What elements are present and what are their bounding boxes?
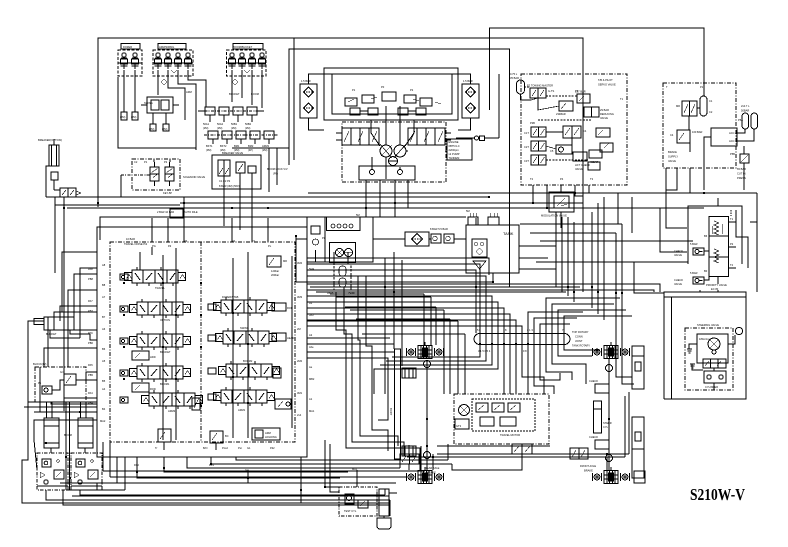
wire pump v-links [371,120,380,146]
svg-text:ENGINE: ENGINE [449,140,459,144]
hydraulic tank box [466,225,519,273]
svg-text:2M: 2M [297,327,301,331]
svg-text:STEER: STEER [603,421,612,425]
wire top outer gamma line [490,28,705,110]
svg-text:PL: PL [322,236,326,240]
pump lower manifold [359,166,415,180]
swing reduce valve [141,97,179,113]
servo extra valve row [588,128,613,170]
accumulator B [751,113,758,129]
tank breather 2 [466,209,478,225]
wire mcv right mesh L6 [307,308,504,333]
svg-text:50B2: 50B2 [245,122,252,126]
svg-text:P1: P1 [144,160,148,164]
svg-text:P5B: P5B [730,152,735,156]
svg-text:(2M): (2M) [162,127,167,131]
valve ROD right [272,303,293,311]
engine coupling [475,136,479,140]
svg-text:35 BAR: 35 BAR [510,76,519,80]
pilot valve DOZER label [121,44,140,50]
servo solenoid C3T [524,155,546,165]
svg-text:VALVE: VALVE [674,253,682,257]
bucket cylinder [34,317,74,336]
breaker foot valve [51,172,58,180]
svg-text:1.5 BAR: 1.5 BAR [301,79,311,83]
svg-text:(2M): (2M) [120,115,125,119]
svg-text:P3: P3 [184,239,188,243]
svg-text:CONN: CONN [575,335,583,339]
svg-text:BM2: BM2 [248,144,254,148]
svg-text:50A2: 50A2 [217,122,224,126]
svg-text:PRESS: PRESS [737,176,746,180]
svg-text:P1: P1 [252,239,256,243]
svg-text:CHECK: CHECK [589,379,598,383]
svg-text:3Ae: 3Ae [309,345,314,349]
boom lock block left [37,453,68,490]
svg-text:Pd: Pd [168,244,172,248]
svg-text:SOLENOID VALVE: SOLENOID VALVE [183,175,205,179]
remote control valve [530,88,546,98]
oil cooler fan box [330,243,356,263]
svg-text:SWING: SWING [144,101,153,105]
wire mid mesh horizontals [330,293,424,295]
svg-text:B8: B8 [102,283,106,287]
steering inner top line [671,297,673,399]
svg-text:2x0.7 L: 2x0.7 L [741,104,750,108]
svg-text:MR: MR [283,259,287,263]
svg-text:A6: A6 [102,327,106,331]
svg-text:KEY-5P: KEY-5P [163,191,172,195]
wire right extra mesh [307,270,476,333]
svg-text:AUTO IDLE: AUTO IDLE [184,210,198,214]
front propeller shaft [608,358,610,470]
wire left horizontals [28,401,97,403]
check valve upper [674,248,704,257]
svg-text:TANK: TANK [503,231,514,236]
svg-text:P2B: P2B [530,121,535,125]
svg-text:VALVE: VALVE [668,159,676,163]
svg-text:3M3: 3M3 [297,295,303,299]
valve regen right [275,399,291,409]
spool BUCKET [130,331,191,350]
text ENGINE spec box [447,139,472,160]
breaker valve box [212,155,261,189]
svg-text:VALVE: VALVE [674,282,682,286]
svg-text:(2M): (2M) [217,126,222,130]
svg-text:B5: B5 [102,379,106,383]
svg-text:10 BAR: 10 BAR [126,237,135,241]
spool OPTION [130,299,191,318]
svg-text:8 BAR 5.5 BAR: 8 BAR 5.5 BAR [430,227,448,231]
wire tank side verticals [555,212,557,287]
wire right riser to steering [756,193,758,292]
svg-text:TRAVEL MOTOR: TRAVEL MOTOR [500,433,520,437]
front check upper [589,379,609,393]
wire servo drop lines [528,312,583,333]
MCV inner dashed box [110,242,295,442]
svg-text:Ae: Ae [309,365,313,369]
svg-text:ARM: ARM [186,90,192,94]
svg-text:ARM2: ARM2 [168,409,176,413]
svg-text:DOZER: DOZER [123,45,132,49]
svg-text:P2: P2 [164,160,168,164]
steering tank symbols [687,349,692,353]
svg-text:ACC A: ACC A [729,131,737,135]
wire mcv right mesh L8 [307,320,516,333]
svg-text:C1 C2 P2: C1 C2 P2 [219,179,231,183]
svg-text:TEST CYL: TEST CYL [344,509,357,513]
svg-text:0.75 L: 0.75 L [510,72,518,76]
svg-text:P4: P4 [560,177,564,181]
wire mid verticals below mcv [300,457,302,503]
svg-text:PL: PL [268,244,272,248]
svg-text:(4P): (4P) [248,148,253,152]
svg-text:PB5: PB5 [88,373,93,377]
wire lock block outlets [46,490,390,500]
svg-text:PB8: PB8 [88,277,93,281]
MCV bottom relief left [158,429,171,450]
main pump 2 [394,145,406,157]
steering cylinder block [704,371,726,389]
svg-text:8 BAR (3M) (5P2): 8 BAR (3M) (5P2) [219,184,240,188]
steering wheel circle [735,327,742,334]
brake reducing valve [670,130,690,143]
svg-text:200bar: 200bar [271,273,279,277]
block12 relief valve [60,370,76,385]
svg-text:CYLINDER: CYLINDER [705,385,718,389]
wire tj risers right [546,298,620,333]
spool DOZER/STAB [214,297,275,316]
cooler left sub-box [307,217,325,262]
svg-text:P2: P2 [410,88,414,92]
steering outer box [664,292,746,399]
wire pump outlet lines [365,180,367,193]
MCV center divider [200,242,202,442]
rear axle housing [389,349,401,459]
svg-text:120bar: 120bar [271,269,279,273]
svg-text:BKT1: BKT1 [206,144,213,148]
svg-text:BKT2: BKT2 [220,144,227,148]
svg-text:MR: MR [676,104,680,108]
front susp cylinder lower [632,417,645,483]
svg-text:C2T: C2T [524,145,529,149]
reducing valve 234bar [556,101,573,116]
boom cylinder left [44,402,59,448]
svg-text:P2 TOWING MASTER: P2 TOWING MASTER [527,84,553,88]
svg-text:CHECK: CHECK [674,278,683,282]
wire tank outlet [492,273,494,282]
block12 check valve [38,381,52,394]
servo spool valve [563,126,587,138]
svg-text:OPTION: OPTION [160,318,170,322]
steer cylinder [594,401,612,433]
pilot c2 diamond [161,79,167,85]
svg-text:REAR AXLE: REAR AXLE [425,466,440,470]
boom cylinder right [78,402,93,448]
tank breather 1 [488,213,499,225]
wire servo risers to joint [567,217,569,296]
svg-text:A5: A5 [102,359,106,363]
svg-text:50A1: 50A1 [203,122,210,126]
wire main bus y197 [190,196,489,198]
svg-text:BUCKET: BUCKET [229,92,240,96]
svg-text:2x4: 2x4 [297,413,302,417]
lift check valve [550,145,572,154]
turning joint ports [480,334,564,345]
check valves 8bar 5.5bar [430,227,454,243]
wire breaker lines [46,166,49,197]
wire mcv right mesh L3 [307,276,486,333]
travel brake valve below [512,444,532,454]
svg-text:PA5: PA5 [88,363,93,367]
MA1 gauge valve [344,494,368,513]
wire mcv right mesh L5 [307,302,498,333]
T/B pilot servo valve box [521,74,627,185]
svg-text:HOLDING: HOLDING [265,435,277,439]
pump body dash box [342,122,446,182]
svg-text:ARM/SWING: ARM/SWING [159,45,174,49]
svg-text:ARM: ARM [265,431,271,435]
wire far left risers [22,367,128,503]
svg-text:B6: B6 [102,347,106,351]
pump regulator left [336,128,379,145]
load check cluster [573,150,602,171]
wire mcv right mesh L1 [307,258,489,275]
svg-text:P4: P4 [232,239,236,243]
svg-text:SWING: SWING [240,326,249,330]
wire ma1 links [356,470,358,487]
svg-text:A2: A2 [309,333,313,337]
svg-text:B6: B6 [704,234,708,238]
svg-text:MA1: MA1 [309,409,315,413]
wire main bus y193 [308,192,757,194]
wire brake cross lines [437,445,550,447]
wire second top line [98,38,583,292]
wire below-tank horizontals [310,286,580,288]
MCV outer box [97,227,307,457]
oil cup [377,518,391,529]
svg-text:ARM1: ARM1 [262,144,270,148]
travel motor box [454,394,549,444]
solenoid valve 2 [165,162,174,186]
axle rear bottom [407,467,444,484]
modulation valve [549,192,574,212]
wire priority feeds [520,223,622,225]
svg-text:BODY: BODY [389,408,393,416]
arm2 compensator [192,398,200,410]
svg-text:P5A: P5A [738,118,743,122]
svg-text:(2M): (2M) [262,148,267,152]
spool ARM1 [214,387,275,406]
accumulator C1 C2 [700,96,713,116]
svg-text:PA4: PA4 [88,391,93,395]
wire mcv enclosing line [100,217,466,240]
wire mcv right mesh L7 [307,314,510,333]
svg-text:160 BAR: 160 BAR [692,130,703,134]
wire pilot area frame lines [118,77,196,148]
reducing valve 29bar [584,107,614,120]
svg-text:5M: 5M [466,209,470,213]
relief valve MR [267,256,287,277]
pump inner manifold row2 [350,108,426,115]
svg-text:50B1: 50B1 [231,122,238,126]
arm holding valve [252,428,280,440]
svg-text:A1: A1 [309,397,313,401]
wire third top line [289,49,510,287]
valve HDD [132,351,156,360]
tank suction filter [472,239,487,257]
svg-text:P1: P1 [700,85,704,89]
svg-text:FRONT AXLE: FRONT AXLE [580,464,596,468]
main pump 1 [380,145,392,157]
svg-text:P1: P1 [352,88,356,92]
svg-text:STEERING VALVE: STEERING VALVE [697,323,719,327]
rear brake cylinder upper [402,368,416,378]
svg-text:5M: 5M [356,213,360,217]
priority valve spool [709,210,736,284]
rear propeller shaft [426,360,428,470]
breaker valve solenoid [218,160,230,176]
travel motor [459,405,470,416]
svg-text:ACC B: ACC B [729,139,737,143]
MCV bottom relief mid [210,431,229,450]
wire pilot risers to mcv [151,218,153,242]
wire swing feed lines [307,284,660,292]
servo dashed links [524,87,592,160]
wire left mcv feeds [80,268,97,338]
axle front bottom [593,467,630,484]
svg-text:VALVE: VALVE [600,116,608,120]
svg-text:G-TS: G-TS [548,89,554,93]
svg-text:Pd2: Pd2 [270,446,275,450]
text MCV right port labels [297,261,315,417]
wire solenoid feeds [153,159,155,162]
svg-text:HEAD: HEAD [287,336,294,340]
svg-text:C2: C2 [134,160,138,164]
svg-text:Gr1: Gr1 [60,370,65,374]
wire pump to engine link [445,150,447,152]
wire mcv right mesh L9 [307,326,522,333]
svg-text:B/O: B/O [203,446,207,450]
wire mcv bottom drops [137,457,340,478]
wire junction verticals near x290 [293,38,295,160]
svg-text:65 BAR: 65 BAR [737,167,746,171]
svg-text:2200rpm: 2200rpm [449,148,459,152]
check valve column left [120,274,128,403]
bypass filter diamond [405,232,429,246]
svg-text:(3M): (3M) [206,148,211,152]
axle front top [593,342,630,359]
svg-text:5 6: 5 6 [477,328,481,332]
wire priority feeds [666,168,687,228]
svg-text:ROD: ROD [150,387,156,391]
wire main bus y203 [180,202,583,204]
svg-text:BREAKER VALVE: BREAKER VALVE [222,151,243,155]
valve HEAD right [272,333,294,341]
svg-text:B4: B4 [102,407,106,411]
svg-text:GT3: GT3 [456,424,462,428]
block 12 dashed box [35,367,86,402]
wire MCV internal galleries [162,255,164,440]
priority valve box [688,206,742,264]
svg-text:BM1: BM1 [234,144,240,148]
svg-text:234BAR: 234BAR [556,112,566,116]
svg-text:BOOM: BOOM [64,433,72,437]
svg-text:LS7 BAR: LS7 BAR [575,90,586,94]
svg-text:2 BAR 10 BAR: 2 BAR 10 BAR [157,210,174,214]
cooler assembly outer [307,217,373,262]
svg-text:REDUCING: REDUCING [600,112,614,116]
pilot valve DOZER [118,50,142,76]
svg-text:BOOM/BUCKET: BOOM/BUCKET [233,45,253,49]
steering spool [703,359,726,368]
pilot c3 diamond [232,79,238,85]
svg-text:BRAKE: BRAKE [427,471,436,475]
travel motor control cluster [472,399,535,431]
svg-text:3M4: 3M4 [297,261,303,265]
wire swing valve outputs [152,113,154,124]
svg-text:BRAKE: BRAKE [668,150,677,154]
svg-text:1.5 BAR: 1.5 BAR [463,79,473,83]
svg-text:3M1: 3M1 [297,391,303,395]
svg-text:PB6: PB6 [88,341,93,345]
boom lock block right [71,453,102,490]
shuttle valve row 1 [198,107,264,130]
wire pump outlet risers [365,193,367,217]
svg-text:JOINT: JOINT [575,339,583,343]
brake line filter [740,154,749,163]
travel 2speed valve [455,419,469,429]
svg-text:C4: C4 [670,133,674,137]
svg-text:BUCKET: BUCKET [160,350,171,354]
svg-text:G1: G1 [247,446,251,450]
front check lower [589,435,609,449]
wire dozer outputs [123,70,125,112]
svg-text:CYL: CYL [603,425,609,429]
breaker valve relief [236,162,245,173]
svg-text:PA7: PA7 [88,299,93,303]
text turning joint numbers [477,328,564,353]
svg-text:P2: P2 [730,242,734,246]
svg-text:Tr: Tr [155,446,157,450]
brake supply valve box [663,83,736,168]
svg-text:6BT5.9-C: 6BT5.9-C [449,144,460,148]
check valve lower [674,277,704,286]
svg-text:C3T: C3T [524,159,529,163]
svg-text:MB2: MB2 [309,377,315,381]
wire boom lock feed [268,148,270,192]
servo solenoid C2T [524,141,546,151]
wire main bus y208 [67,207,704,209]
spool BOOM2 [219,361,280,380]
brake charge valve MR [676,101,697,116]
svg-text:SUPPLY: SUPPLY [668,155,678,159]
wire mid vertical bundle [384,258,386,394]
wire left bottom verticals [102,442,104,471]
pilot valve BOOM/BUCKET label [233,44,263,50]
wire inter-block verticals [65,402,67,490]
svg-text:5 BAR: 5 BAR [690,242,698,246]
MA1 test block [339,487,377,516]
check valve column mid [208,304,216,400]
wire brake right riser [703,83,705,96]
wire acc connections [737,129,745,133]
servo solenoid C1T [524,127,546,137]
svg-text:P0: P0 [381,85,385,89]
suction block A5A6 [327,252,355,295]
svg-text:S210W-V: S210W-V [690,485,745,504]
svg-text:C4: C4 [583,129,587,133]
